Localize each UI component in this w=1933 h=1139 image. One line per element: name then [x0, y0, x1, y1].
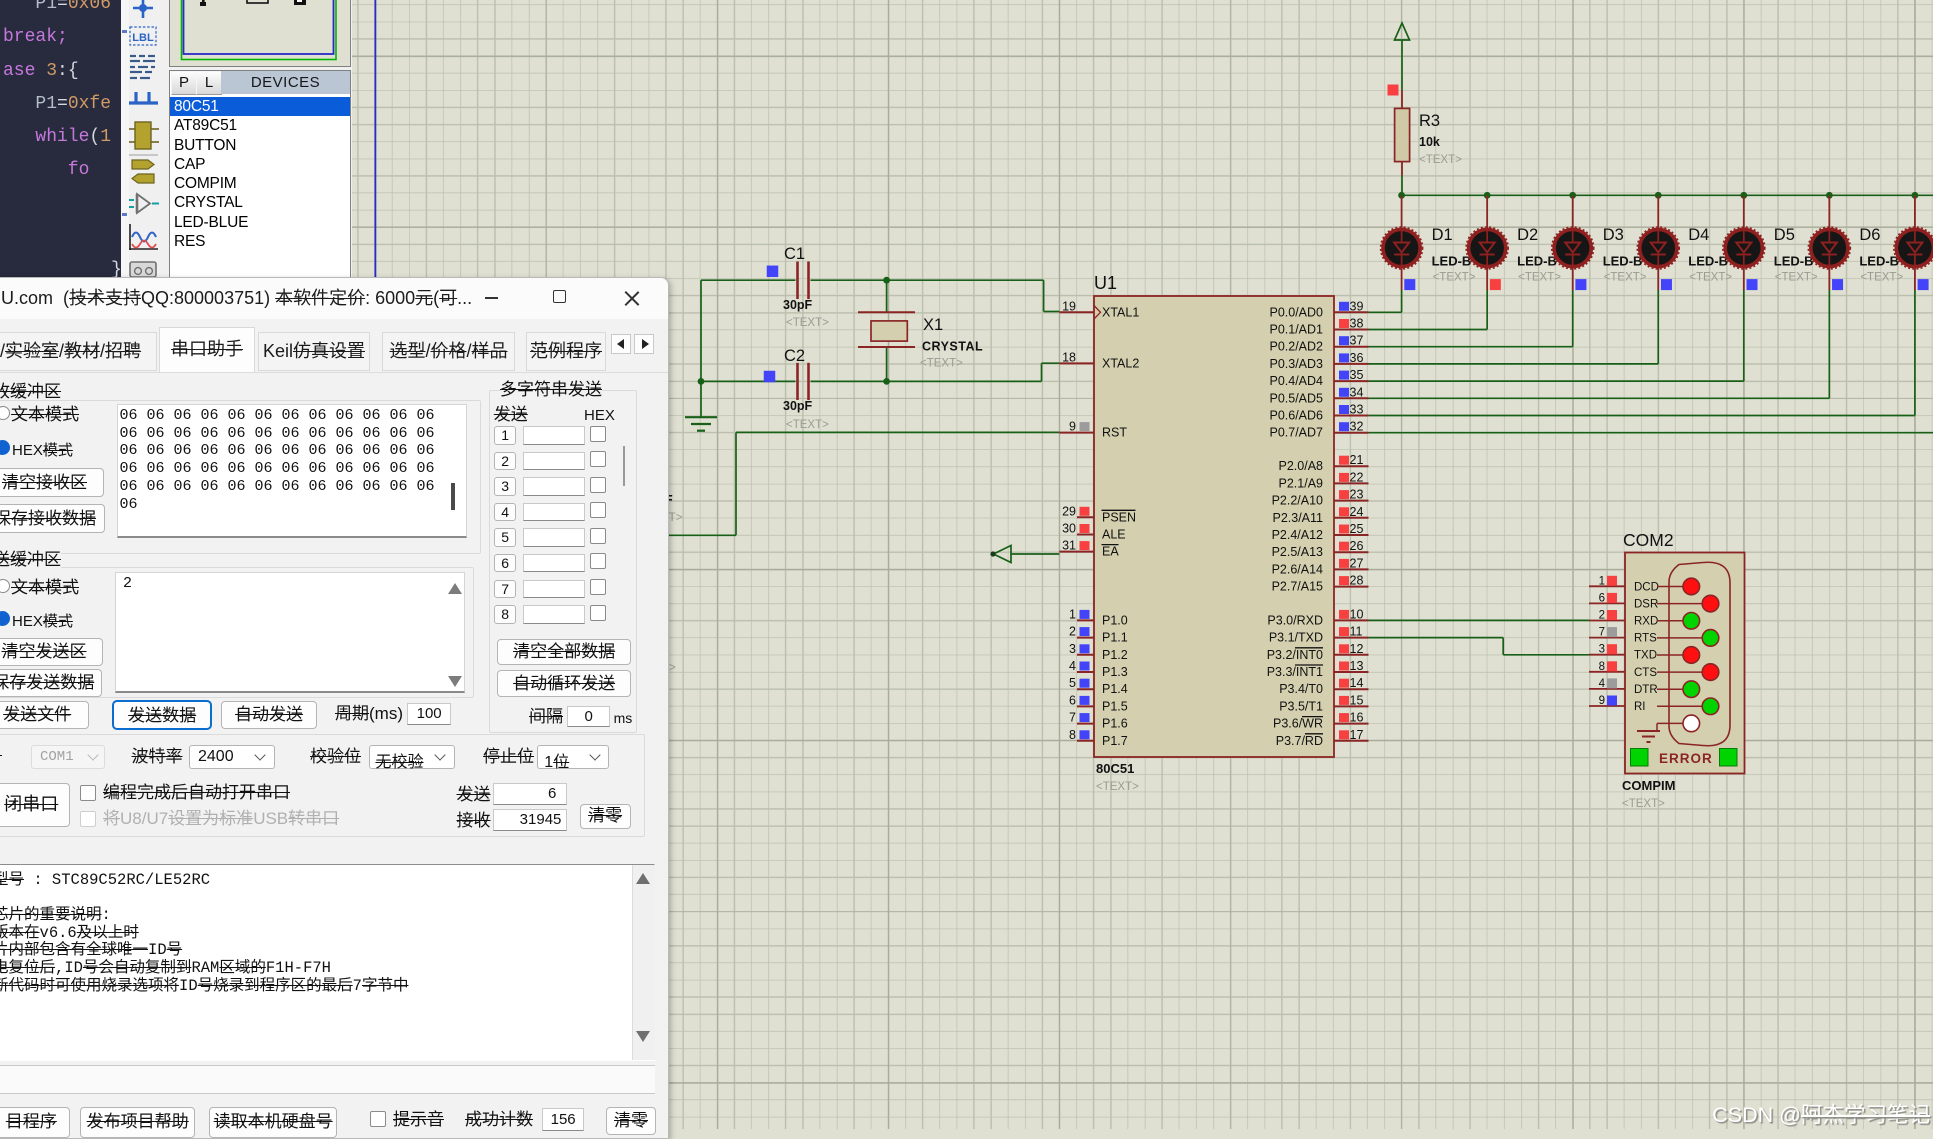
svg-text:<TEXT>: <TEXT>: [1518, 272, 1561, 284]
svg-text:<TEXT>: <TEXT>: [786, 317, 829, 329]
svg-text:D3: D3: [1603, 226, 1624, 244]
svg-text:2: 2: [1599, 610, 1605, 622]
svg-text:13: 13: [1350, 659, 1364, 673]
svg-text:LED-B: LED-B: [1432, 254, 1472, 269]
svg-text:R3: R3: [1419, 112, 1440, 130]
svg-text:D2: D2: [1517, 226, 1538, 244]
svg-text:P1.2: P1.2: [1102, 648, 1128, 662]
svg-text:27: 27: [1350, 556, 1364, 570]
svg-text:XTAL1: XTAL1: [1102, 305, 1139, 319]
svg-text:P3.3/INT1: P3.3/INT1: [1267, 665, 1323, 679]
svg-text:39: 39: [1350, 299, 1364, 313]
svg-text:P2.2/A10: P2.2/A10: [1272, 494, 1323, 508]
svg-text:D4: D4: [1688, 226, 1709, 244]
svg-text:DSR: DSR: [1634, 598, 1658, 610]
svg-text:LED-B: LED-B: [1774, 254, 1814, 269]
svg-text:1: 1: [1069, 607, 1076, 621]
svg-text:<TEXT>: <TEXT>: [1604, 272, 1647, 284]
svg-text:<TEXT>: <TEXT>: [1689, 272, 1732, 284]
svg-text:P3.4/T0: P3.4/T0: [1279, 682, 1323, 696]
svg-text:P0.1/AD1: P0.1/AD1: [1269, 323, 1323, 337]
svg-text:30pF: 30pF: [783, 399, 813, 413]
svg-text:P3.1/TXD: P3.1/TXD: [1269, 631, 1323, 645]
svg-text:9: 9: [1599, 695, 1605, 707]
svg-text:COM2: COM2: [1623, 530, 1674, 550]
svg-text:LED-B: LED-B: [1688, 254, 1728, 269]
svg-text:80C51: 80C51: [1096, 761, 1134, 776]
svg-text:D1: D1: [1432, 226, 1453, 244]
svg-text:ERROR: ERROR: [1659, 751, 1713, 766]
svg-text:29: 29: [1062, 504, 1076, 518]
svg-text:3: 3: [1599, 644, 1605, 656]
svg-text:9: 9: [1069, 420, 1076, 434]
svg-text:12: 12: [1350, 642, 1364, 656]
svg-text:7: 7: [1599, 627, 1605, 639]
svg-text:30pF: 30pF: [783, 298, 813, 312]
svg-text:P2.3/A11: P2.3/A11: [1272, 511, 1323, 525]
svg-text:7: 7: [1069, 711, 1076, 725]
svg-text:P0.5/AD5: P0.5/AD5: [1269, 391, 1323, 405]
svg-text:<TEXT>: <TEXT>: [1860, 272, 1903, 284]
svg-text:DTR: DTR: [1634, 684, 1658, 696]
svg-text:RI: RI: [1634, 701, 1646, 713]
svg-text:RTS: RTS: [1634, 633, 1657, 645]
svg-text:4: 4: [1599, 678, 1606, 690]
svg-text:23: 23: [1350, 488, 1364, 502]
svg-text:10: 10: [1350, 607, 1364, 621]
svg-text:PSEN: PSEN: [1102, 510, 1136, 524]
svg-text:C1: C1: [784, 245, 805, 263]
svg-text:P1.7: P1.7: [1102, 734, 1128, 748]
svg-text:P3.6/WR: P3.6/WR: [1273, 717, 1323, 731]
svg-text:35: 35: [1350, 368, 1364, 382]
svg-text:CRYSTAL: CRYSTAL: [922, 340, 983, 354]
svg-text:D5: D5: [1774, 226, 1795, 244]
svg-text:15: 15: [1350, 693, 1364, 707]
svg-text:25: 25: [1350, 522, 1364, 536]
svg-text:P0.3/AD3: P0.3/AD3: [1269, 357, 1323, 371]
svg-text:11: 11: [1350, 625, 1363, 639]
svg-text:14: 14: [1350, 676, 1364, 690]
svg-text:6: 6: [1599, 592, 1605, 604]
svg-text:3: 3: [1069, 642, 1076, 656]
svg-text:P0.4/AD4: P0.4/AD4: [1269, 374, 1323, 388]
svg-text:P1.0: P1.0: [1102, 613, 1128, 627]
svg-text:XTAL2: XTAL2: [1102, 356, 1139, 370]
svg-text:<TEXT>: <TEXT>: [920, 358, 963, 370]
svg-text:4: 4: [1069, 659, 1076, 673]
svg-text:U1: U1: [1094, 273, 1117, 293]
svg-text:36: 36: [1350, 351, 1364, 365]
svg-text:<TEXT>: <TEXT>: [786, 419, 829, 431]
svg-text:P1.1: P1.1: [1102, 631, 1128, 645]
svg-text:38: 38: [1350, 317, 1364, 331]
svg-text:P2.1/A9: P2.1/A9: [1279, 476, 1324, 490]
svg-text:19: 19: [1062, 299, 1076, 313]
svg-text:CTS: CTS: [1634, 667, 1657, 679]
svg-text:30: 30: [1062, 522, 1076, 536]
svg-text:P1.5: P1.5: [1102, 699, 1128, 713]
svg-text:24: 24: [1350, 505, 1364, 519]
svg-text:P3.5/T1: P3.5/T1: [1279, 699, 1323, 713]
svg-text:<TEXT>: <TEXT>: [1096, 781, 1139, 793]
svg-text:<TEXT>: <TEXT>: [1419, 154, 1462, 166]
svg-text:P0.7/AD7: P0.7/AD7: [1269, 426, 1323, 440]
svg-text:P2.4/A12: P2.4/A12: [1272, 528, 1323, 542]
svg-text:LED-B: LED-B: [1603, 254, 1643, 269]
svg-text:LED-B: LED-B: [1517, 254, 1557, 269]
svg-text:32: 32: [1350, 420, 1364, 434]
svg-text:RXD: RXD: [1634, 616, 1658, 628]
svg-text:P3.0/RXD: P3.0/RXD: [1267, 613, 1323, 627]
svg-text:ALE: ALE: [1102, 528, 1126, 542]
svg-text:5: 5: [1069, 676, 1076, 690]
svg-text:17: 17: [1350, 728, 1364, 742]
svg-text:28: 28: [1350, 574, 1364, 588]
svg-text:D6: D6: [1859, 226, 1880, 244]
svg-text:<TEXT>: <TEXT>: [1775, 272, 1818, 284]
svg-text:TXD: TXD: [1634, 650, 1657, 662]
svg-text:C2: C2: [784, 347, 805, 365]
svg-text:P3.2/INT0: P3.2/INT0: [1267, 648, 1323, 662]
svg-text:P1.6: P1.6: [1102, 717, 1128, 731]
svg-text:21: 21: [1350, 453, 1364, 467]
svg-text:P0.6/AD6: P0.6/AD6: [1269, 409, 1323, 423]
svg-text:31: 31: [1062, 539, 1076, 553]
svg-text:26: 26: [1350, 539, 1364, 553]
svg-text:8: 8: [1599, 661, 1605, 673]
svg-text:37: 37: [1350, 334, 1364, 348]
svg-text:EA: EA: [1102, 545, 1119, 559]
svg-text:COMPIM: COMPIM: [1622, 778, 1675, 793]
svg-text:LED-B: LED-B: [1859, 254, 1899, 269]
svg-text:33: 33: [1350, 403, 1364, 417]
svg-text:P2.6/A14: P2.6/A14: [1272, 562, 1323, 576]
svg-text:DCD: DCD: [1634, 581, 1659, 593]
svg-text:LBL: LBL: [132, 32, 154, 44]
svg-text:<TEXT>: <TEXT>: [1622, 798, 1665, 810]
svg-text:10k: 10k: [1419, 135, 1440, 149]
svg-text:34: 34: [1350, 385, 1364, 399]
svg-text:16: 16: [1350, 711, 1364, 725]
svg-text:1: 1: [1599, 575, 1605, 587]
svg-text:P3.7/RD: P3.7/RD: [1276, 734, 1323, 748]
svg-text:6: 6: [1069, 693, 1076, 707]
svg-text:X1: X1: [923, 316, 943, 334]
svg-text:P0.2/AD2: P0.2/AD2: [1269, 340, 1323, 354]
svg-text:22: 22: [1350, 470, 1364, 484]
svg-text:2: 2: [1069, 625, 1076, 639]
svg-text:P2.7/A15: P2.7/A15: [1272, 580, 1323, 594]
svg-text:<TEXT>: <TEXT>: [1433, 272, 1476, 284]
svg-text:8: 8: [1069, 728, 1076, 742]
svg-text:P1.3: P1.3: [1102, 665, 1128, 679]
svg-text:P1.4: P1.4: [1102, 682, 1128, 696]
svg-text:P2.5/A13: P2.5/A13: [1272, 545, 1323, 559]
svg-text:RST: RST: [1102, 426, 1127, 440]
svg-text:P2.0/A8: P2.0/A8: [1279, 459, 1324, 473]
svg-text:P0.0/AD0: P0.0/AD0: [1269, 305, 1323, 319]
svg-text:18: 18: [1062, 350, 1076, 364]
